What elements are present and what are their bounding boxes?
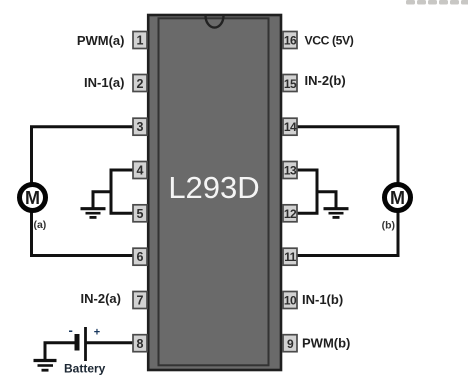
svg-text:IN-2(a): IN-2(a)	[81, 291, 121, 306]
svg-text:9: 9	[287, 337, 294, 351]
svg-text:1: 1	[137, 34, 144, 48]
svg-text:8: 8	[137, 337, 144, 351]
svg-text:IN-1(a): IN-1(a)	[84, 75, 124, 90]
svg-text:PWM(b): PWM(b)	[302, 336, 350, 351]
svg-text:2: 2	[137, 77, 144, 91]
svg-text:5: 5	[137, 207, 144, 221]
svg-text:11: 11	[284, 250, 296, 264]
svg-text:4: 4	[137, 164, 144, 178]
svg-text:M: M	[25, 188, 40, 208]
svg-text:L293D: L293D	[168, 170, 259, 205]
svg-text:M: M	[390, 188, 405, 208]
svg-text:3: 3	[137, 120, 144, 134]
svg-text:10: 10	[284, 294, 297, 308]
svg-text:13: 13	[284, 164, 297, 178]
svg-text:IN-2(b): IN-2(b)	[305, 73, 346, 88]
svg-text:(b): (b)	[382, 219, 395, 231]
svg-text:14: 14	[284, 120, 297, 134]
svg-text:16: 16	[284, 34, 297, 48]
svg-text:IN-1(b): IN-1(b)	[302, 292, 343, 307]
svg-text:12: 12	[284, 207, 297, 221]
svg-text:6: 6	[137, 250, 144, 264]
svg-text:-: -	[69, 323, 73, 338]
svg-text:15: 15	[284, 77, 297, 91]
svg-text:Battery: Battery	[64, 362, 106, 376]
svg-text:VCC (5V): VCC (5V)	[305, 33, 354, 47]
svg-text:7: 7	[137, 294, 144, 308]
svg-text:PWM(a): PWM(a)	[77, 33, 125, 48]
svg-text:+: +	[94, 326, 100, 338]
svg-text:(a): (a)	[33, 219, 46, 231]
